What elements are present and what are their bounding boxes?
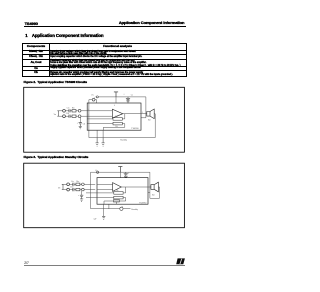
wire gnd pin f3 bbox=[103, 204, 105, 216]
svg-text:1µF: 1µF bbox=[94, 219, 97, 221]
wire VOUT2 stub bbox=[141, 117, 146, 119]
wire cap-res A f3 bbox=[74, 183, 76, 185]
ground Cs bbox=[126, 101, 130, 103]
resistor Rin B f3 bbox=[76, 188, 80, 190]
wire VCC rail bbox=[98, 96, 146, 98]
components table bbox=[22, 43, 186, 77]
ground Cb f3 bbox=[80, 199, 83, 201]
wire R2 feed bbox=[87, 123, 113, 125]
terminal ring B f3 bbox=[82, 188, 85, 191]
node VCC terminal f3 bbox=[97, 171, 99, 173]
wire R2 feed f3 bbox=[86, 197, 114, 199]
wire left loop f3 bbox=[90, 172, 92, 209]
svg-text:Vcc: Vcc bbox=[95, 170, 98, 172]
wire res-ring A bbox=[76, 110, 78, 112]
wire R1 to output f3 bbox=[123, 187, 126, 193]
source Ve bracket bbox=[57, 111, 58, 116]
wire R2 return f3 bbox=[104, 198, 126, 205]
capacitor Cb f3 bbox=[80, 195, 83, 199]
ground Cb bbox=[79, 127, 82, 129]
svg-text:Cb: Cb bbox=[83, 124, 85, 126]
wire ring-ic B f3 bbox=[84, 189, 95, 191]
wire standby right f3 bbox=[123, 208, 130, 210]
wire speaker right f3 bbox=[150, 187, 160, 198]
svg-text:Ve: Ve bbox=[58, 188, 61, 190]
op-amp U2 f3 bbox=[113, 183, 122, 192]
switch standby f3 bbox=[120, 207, 123, 210]
svg-text:+: + bbox=[128, 172, 130, 174]
resistor R1 internal bbox=[113, 118, 122, 121]
svg-text:Standby: Standby bbox=[131, 208, 138, 211]
power VCC arrow f3 bbox=[118, 167, 122, 173]
svg-text:8Ω: 8Ω bbox=[152, 195, 155, 197]
wire gnd stub A bbox=[96, 130, 98, 137]
wire input IN+ bbox=[87, 110, 112, 112]
wire input IN+ f3 bbox=[97, 183, 113, 185]
wire standby top bbox=[89, 100, 97, 103]
footer rule bbox=[24, 264, 185, 267]
resistor Rin B bbox=[72, 115, 76, 117]
pin 6 VCC stub bbox=[115, 97, 117, 103]
wire bottom standby bus f3 bbox=[91, 208, 120, 210]
svg-text:Cin: Cin bbox=[71, 181, 74, 183]
svg-text:Standby: Standby bbox=[120, 139, 127, 142]
svg-text:Vcc: Vcc bbox=[91, 95, 94, 97]
capacitor Cin A bbox=[69, 109, 70, 112]
wire standby left drop bbox=[88, 100, 90, 138]
switch lever f3 bbox=[120, 206, 122, 209]
switch standby top bbox=[92, 98, 95, 101]
wire source A bbox=[59, 110, 69, 112]
svg-text:Cs: Cs bbox=[131, 94, 133, 96]
capacitor Cin B bbox=[69, 115, 70, 118]
op-amp U1 bbox=[112, 109, 122, 118]
wire R1 feed bbox=[87, 118, 113, 120]
source circle B f3 bbox=[67, 188, 70, 191]
wire source B f3 bbox=[63, 189, 73, 191]
wire output VOUT1 bbox=[123, 113, 147, 115]
pin VCC stub f3 bbox=[119, 172, 121, 177]
ST logo bbox=[176, 258, 185, 264]
wire input IN- f3 bbox=[97, 189, 113, 191]
wire source A f3 bbox=[63, 183, 73, 185]
ic TS4990 box f3 bbox=[97, 178, 148, 205]
svg-text:220n: 220n bbox=[70, 186, 74, 188]
svg-text:Ve: Ve bbox=[54, 114, 57, 116]
wire right loop f3 bbox=[148, 172, 150, 192]
capacitor Cin B f3 bbox=[73, 188, 74, 191]
ground G2 bbox=[102, 138, 105, 147]
block standby internal f3 bbox=[113, 200, 119, 202]
source circle A bbox=[63, 109, 66, 112]
header right: section name bbox=[117, 21, 184, 25]
wire res-ring A f3 bbox=[80, 183, 82, 185]
switch lever bbox=[93, 97, 95, 100]
wire VCC rail f3 bbox=[91, 171, 150, 173]
svg-text:6: 6 bbox=[114, 105, 115, 107]
wire VOUT2 loop vertical bbox=[145, 97, 147, 118]
ground G1 bbox=[96, 138, 99, 147]
wire res-ring B bbox=[76, 115, 78, 117]
footer page number bbox=[24, 262, 28, 265]
header rule bbox=[24, 25, 186, 28]
wire cap-res B f3 bbox=[74, 189, 76, 191]
resistor Rin A bbox=[72, 110, 76, 112]
terminal ring B bbox=[78, 115, 81, 118]
wire res-ring B f3 bbox=[80, 189, 82, 191]
svg-text:Cin: Cin bbox=[67, 107, 70, 109]
section heading bbox=[25, 34, 103, 38]
wire ring-ic A bbox=[81, 110, 87, 112]
svg-text:220n: 220n bbox=[66, 113, 70, 115]
speaker LS1 bbox=[147, 109, 154, 119]
svg-text:TS4990: TS4990 bbox=[131, 128, 139, 130]
wire Cb stem f3 bbox=[80, 191, 82, 195]
node VCC terminal bbox=[96, 96, 98, 98]
wire standby pin f3 bbox=[115, 202, 117, 204]
power VCC arrow bbox=[114, 92, 118, 97]
wire source B bbox=[59, 115, 69, 117]
source Ve bracket f3 bbox=[62, 184, 63, 189]
speaker LS2 bbox=[151, 182, 159, 192]
svg-text:20k: 20k bbox=[115, 116, 118, 118]
terminal ring A f3 bbox=[82, 183, 85, 186]
svg-text:8Ω: 8Ω bbox=[148, 120, 151, 122]
svg-text:20k: 20k bbox=[116, 190, 119, 192]
wire ring-ic B bbox=[81, 115, 87, 117]
resistor R1 internal f3 bbox=[114, 192, 123, 195]
resistor R2 internal f3 bbox=[114, 196, 123, 199]
wire speaker right bbox=[154, 114, 155, 138]
source circle B bbox=[63, 115, 66, 118]
ground G3 bbox=[102, 216, 105, 219]
resistor Rin A f3 bbox=[76, 183, 80, 185]
capacitor Cs f3 bbox=[124, 172, 128, 176]
figure 3 caption bbox=[24, 156, 89, 159]
wire R1 feed f3 bbox=[86, 192, 114, 194]
wire output f3 bbox=[121, 186, 151, 188]
wire Cb stem bbox=[79, 118, 81, 123]
svg-text:+: + bbox=[123, 93, 125, 95]
ic TS4990 box bbox=[87, 103, 141, 130]
svg-text:Rin: Rin bbox=[72, 107, 75, 109]
capacitor Cs bbox=[126, 97, 130, 101]
capacitor Cb bbox=[79, 123, 82, 127]
wire tick f3 bbox=[108, 204, 110, 209]
figure 2 caption bbox=[24, 81, 87, 84]
wire R2 return bbox=[103, 124, 124, 131]
wire input IN- bbox=[87, 115, 112, 117]
header left: part number bbox=[25, 22, 38, 26]
wire ring-ic A f3 bbox=[84, 183, 95, 185]
svg-text:+: + bbox=[78, 195, 80, 197]
ground Cs f3 bbox=[124, 176, 128, 177]
source circle A f3 bbox=[67, 183, 70, 186]
resistor R2 internal bbox=[113, 122, 122, 125]
wire cap-res A bbox=[70, 110, 72, 112]
svg-text:+: + bbox=[77, 123, 79, 125]
wire cap-res B bbox=[70, 115, 72, 117]
svg-text:20k: 20k bbox=[115, 126, 118, 128]
wire VCC tick bbox=[94, 96, 97, 98]
terminal ring A bbox=[78, 109, 81, 112]
capacitor Cin A f3 bbox=[73, 183, 74, 186]
wire gnd stub B bbox=[102, 130, 104, 137]
figure 3 frame bbox=[24, 163, 185, 228]
wire R1 to output bbox=[122, 114, 125, 119]
wire bottom bus bbox=[89, 137, 155, 139]
svg-text:TS4990: TS4990 bbox=[139, 202, 147, 204]
svg-text:Rin: Rin bbox=[76, 181, 79, 183]
figure 2 frame bbox=[24, 87, 185, 152]
